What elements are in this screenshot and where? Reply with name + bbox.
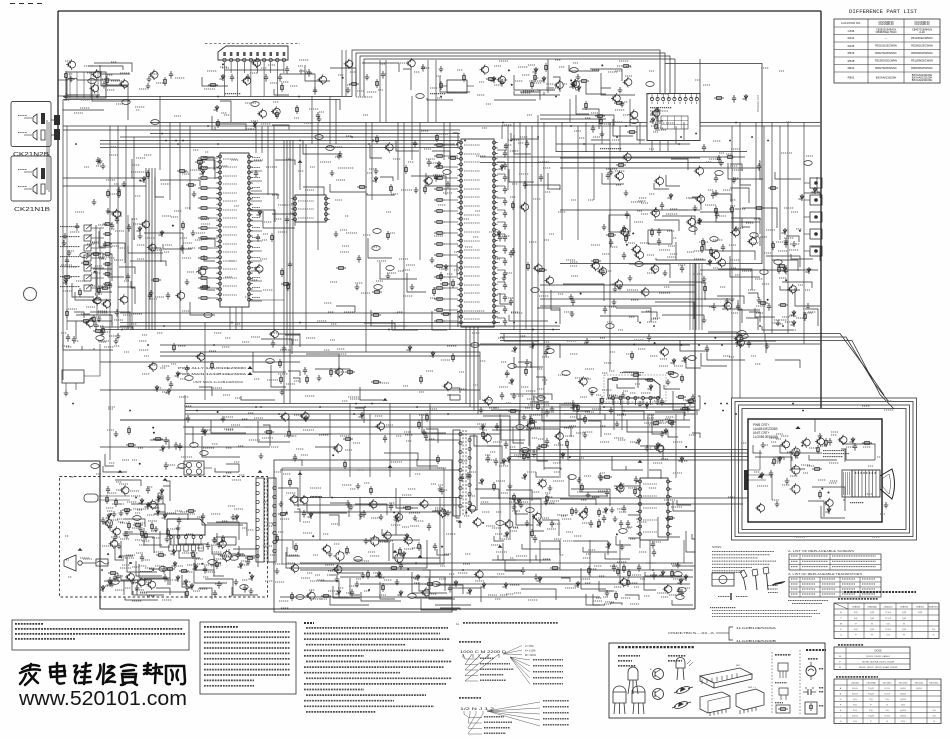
capacitor C477 — [217, 581, 221, 589]
line filter L602 — [184, 461, 204, 475]
wire — [329, 503, 460, 560]
resistor R506 — [610, 378, 620, 381]
variable resistor VR58 — [568, 475, 576, 480]
diode D244 — [403, 533, 408, 540]
svg-text:DIFFERENCE PART LIST: DIFFERENCE PART LIST — [849, 9, 917, 15]
wire audio bus — [352, 50, 660, 97]
diode D217 — [781, 266, 786, 273]
wire — [58, 95, 66, 97]
wire vertical bus from IC801 — [283, 140, 285, 345]
resistor R410 — [198, 227, 210, 230]
node L132 — [153, 432, 155, 434]
resistor R493 — [701, 244, 704, 253]
ground — [512, 504, 517, 510]
ground — [785, 478, 790, 484]
resistor R445 — [62, 276, 72, 279]
ground — [149, 290, 154, 296]
resistor R709 — [714, 97, 724, 100]
svg-text:R512R20JECWNN: R512R20JECWNN — [875, 59, 897, 63]
diode D289 — [478, 478, 483, 485]
node L137 — [785, 279, 787, 281]
diode D206 — [256, 210, 261, 217]
ground — [122, 181, 127, 187]
ground — [185, 584, 190, 590]
transistor Q135 — [382, 530, 391, 540]
variable resistor VR55 — [208, 560, 216, 565]
label text — [122, 417, 263, 465]
resistor R557 — [598, 519, 601, 528]
diode D281 — [219, 74, 224, 81]
wire — [497, 305, 505, 307]
capacitor C533 — [712, 303, 716, 311]
capacitor C517 — [126, 273, 130, 281]
ground — [534, 574, 539, 580]
wire — [748, 479, 766, 481]
svg-text:F,G: F,G — [853, 710, 857, 712]
transistor Q131 — [136, 577, 145, 587]
svg-text:E,F,G: E,F,G — [852, 716, 858, 718]
resistor R412 — [198, 247, 210, 250]
diode D228 — [99, 585, 104, 592]
ground — [386, 273, 391, 279]
svg-text:G,R,S: G,R,S — [900, 694, 906, 696]
ground — [676, 562, 681, 568]
svg-text:Q,R: Q,R — [902, 618, 906, 620]
wire — [510, 449, 748, 451]
resistor R614 — [581, 483, 584, 492]
wire — [210, 227, 218, 229]
resistor R457 — [390, 184, 393, 193]
svg-text:2SC458: 2SC458 — [851, 682, 859, 684]
node junctions — [72, 96, 804, 571]
resistor R512 — [153, 438, 163, 441]
capacitor C468 — [293, 454, 297, 462]
ground — [586, 492, 591, 498]
inductor L601 — [310, 496, 322, 498]
svg-text:E,F,G: E,F,G — [852, 688, 858, 690]
svg-text:O,Y,G: O,Y,G — [885, 612, 891, 614]
node L118 — [152, 427, 154, 429]
ground — [147, 76, 152, 82]
transistor Q713 — [695, 194, 705, 205]
wire — [748, 475, 772, 500]
variable resistor VR34 — [315, 135, 323, 140]
ground — [317, 116, 322, 122]
ground — [338, 151, 343, 157]
ground — [64, 390, 69, 396]
svg-text:P,Q,R: P,Q,R — [868, 716, 874, 718]
capacitor C480 — [177, 517, 181, 525]
resistor R517 — [288, 429, 291, 438]
label text — [481, 476, 682, 559]
resistor R424 — [434, 210, 445, 213]
wire — [497, 293, 505, 295]
wire — [98, 495, 130, 497]
label text — [338, 61, 531, 97]
pin 8 of U301 — [269, 58, 272, 61]
resistor R613 — [598, 508, 601, 517]
label text — [250, 160, 293, 280]
resistor R570 — [617, 567, 620, 576]
ground — [114, 338, 119, 344]
svg-text:M= ±20%: M= ±20% — [525, 653, 537, 657]
connector J102 — [54, 129, 60, 140]
speaker SP2 — [33, 130, 37, 140]
wire — [251, 250, 263, 252]
resistor R443 — [98, 286, 101, 295]
label text — [139, 333, 291, 398]
variable resistor VR ref — [178, 464, 186, 469]
pins of U602 regulator — [636, 480, 671, 536]
test point TP-62 — [144, 578, 146, 585]
variable resistor VR64 — [266, 359, 274, 364]
ground — [638, 401, 643, 407]
AC plug P501 — [64, 555, 76, 571]
variable resistor VR60 — [432, 582, 440, 587]
capacitor C499 — [545, 409, 549, 417]
wire — [51, 119, 58, 121]
ground — [818, 433, 823, 439]
transistor Q140 — [437, 508, 446, 518]
transistor Q187 — [289, 494, 298, 504]
resistor R593 — [591, 260, 601, 263]
wire B+ trunk — [185, 413, 695, 415]
resistor R470 — [486, 78, 496, 81]
wire — [184, 395, 186, 460]
transistor Q123 — [734, 333, 743, 343]
warning mark — [298, 472, 303, 475]
node L107 — [601, 64, 603, 66]
winding — [256, 491, 259, 494]
ground — [349, 504, 354, 510]
capacitor C530 — [186, 415, 190, 423]
winding — [468, 474, 471, 477]
variable resistor VR40 — [531, 288, 539, 293]
ground — [422, 429, 427, 435]
wire — [689, 263, 691, 330]
svg-text:1000 C M 2200 D: 1000 C M 2200 D — [460, 650, 507, 654]
capacitor C482 — [201, 513, 205, 521]
variable resistor VR ref — [646, 82, 654, 87]
node L104 — [508, 69, 510, 71]
capacitor C560 — [213, 590, 217, 598]
pin 5 of U601 — [200, 536, 203, 539]
ground — [438, 486, 443, 492]
winding — [468, 438, 471, 441]
svg-text:A. LIST OF REPLACEABLE SCREWS: A. LIST OF REPLACEABLE SCREWS — [788, 550, 855, 553]
ground — [522, 414, 527, 420]
transistor Q134 — [111, 526, 120, 536]
ground — [395, 579, 400, 585]
capacitor C408 — [503, 162, 507, 170]
capacitor C496 — [688, 398, 692, 406]
transistor Q181 — [251, 58, 260, 68]
label text — [107, 482, 160, 532]
variable resistor VR ref — [562, 371, 570, 376]
capacitor C467 — [424, 433, 428, 441]
ground — [176, 525, 181, 531]
capacitor C502 — [550, 520, 554, 528]
resistor R525 — [128, 521, 131, 530]
svg-text:O,Y,S: O,Y,S — [884, 716, 890, 718]
transistor Q184 — [472, 517, 481, 527]
capacitor C423 — [166, 292, 170, 300]
transistor Q115 — [533, 263, 542, 273]
resistor R543 — [566, 439, 569, 448]
capacitor C453 — [657, 238, 661, 246]
small package transistor — [778, 663, 788, 671]
wire — [58, 79, 68, 81]
transistor Q104 — [147, 242, 156, 252]
svg-text:J= ±5%: J= ±5% — [525, 644, 534, 648]
resistor R401 — [65, 71, 68, 80]
ground — [537, 444, 542, 450]
ground — [365, 74, 370, 80]
CRT neck funnel — [880, 469, 895, 499]
wire — [120, 419, 500, 421]
resistor R560 — [585, 506, 588, 515]
resistor R433 — [434, 309, 445, 312]
variable resistor VR37 — [373, 229, 381, 234]
node L117 — [139, 463, 141, 465]
node L122 — [201, 563, 203, 565]
degaussing posistor symbol — [805, 702, 817, 714]
warning mark — [418, 555, 423, 558]
resistor R539 — [425, 583, 435, 586]
switch S5 — [84, 265, 91, 271]
svg-text:R518: R518 — [848, 59, 855, 63]
ground — [761, 442, 766, 448]
capacitor C531 — [178, 443, 182, 451]
ground — [410, 284, 415, 290]
op-amp U602 regulator — [640, 478, 668, 540]
capacitor C500 — [486, 455, 490, 463]
wire — [251, 160, 295, 228]
variable resistor VR69 — [546, 349, 554, 354]
pins of U401 — [611, 396, 659, 405]
capacitor C437 — [504, 143, 508, 151]
wire — [497, 257, 505, 259]
resistor R480 — [93, 330, 103, 333]
diode D205 — [62, 278, 67, 285]
capacitor C550 — [505, 370, 509, 378]
transistor Q185 — [537, 478, 546, 488]
transistor package flat 1 — [613, 692, 626, 703]
ground — [702, 317, 707, 323]
svg-text:A. LIST OF REPLACEABLE TRANSIS: A. LIST OF REPLACEABLE TRANSISTORS — [788, 573, 863, 576]
capacitor C516 — [115, 216, 119, 224]
node L115 — [654, 342, 656, 344]
resistor R551 — [482, 430, 485, 439]
wire — [497, 221, 505, 223]
resistor R510 — [126, 444, 136, 447]
diode D203 — [158, 230, 163, 237]
svg-text:LOCATION NO.: LOCATION NO. — [841, 21, 861, 25]
capacitor C497 — [660, 398, 664, 406]
wire — [336, 238, 458, 330]
wire — [210, 247, 218, 249]
capacitor C455 — [625, 211, 629, 219]
wire — [250, 70, 252, 97]
wire — [275, 488, 300, 568]
wire — [120, 325, 560, 327]
capacitor C554 — [460, 474, 464, 482]
diode D269 — [682, 574, 687, 581]
svg-text:Q,R: Q,R — [902, 629, 906, 631]
transistor Q111 — [344, 59, 353, 69]
pins of U802 PST573 — [291, 197, 329, 221]
label text — [581, 562, 683, 604]
ground — [624, 190, 629, 196]
resistor R583 — [173, 343, 176, 352]
pin 4 of U301 — [243, 58, 246, 61]
amplifier sub-circuit box — [609, 215, 630, 232]
transistor Q159 — [92, 295, 101, 305]
wire — [445, 177, 458, 179]
svg-text:N43 + 1: N43 + 1 — [748, 687, 757, 689]
svg-text:P,Q,R: P,Q,R — [868, 688, 874, 690]
resistor R591 — [371, 381, 381, 384]
svg-text:R521001JECWNN: R521001JECWNN — [875, 44, 897, 48]
package identification box — [609, 643, 825, 718]
winding — [273, 549, 276, 552]
node L140 — [616, 533, 618, 535]
wire — [100, 608, 695, 610]
ground — [280, 389, 285, 395]
wire — [561, 568, 693, 605]
diode D267 — [536, 576, 541, 583]
table diodes — [838, 644, 864, 646]
ground — [123, 531, 128, 537]
capacitor C559 — [140, 554, 144, 562]
winding — [256, 500, 259, 503]
ground — [100, 330, 105, 336]
diode D241 — [171, 561, 176, 568]
svg-text:BXXAA0231100H: BXXAA0231100H — [876, 75, 897, 79]
CRT socket — [852, 470, 880, 497]
transistor Q161 — [111, 209, 120, 219]
capacitor C473 — [116, 573, 120, 581]
wire — [251, 280, 263, 282]
pin 5 of U301 — [249, 58, 252, 61]
resistor R458 — [424, 185, 427, 194]
warning mark — [393, 550, 398, 553]
wire — [814, 419, 816, 432]
resistor R558 — [602, 476, 612, 479]
watermark logo 家电维修资料网 — [20, 664, 40, 685]
svg-text:2SA1115: 2SA1115 — [884, 605, 893, 608]
node L116 — [576, 406, 578, 408]
diode D287 — [511, 346, 516, 353]
ground — [413, 515, 418, 521]
ground — [67, 250, 72, 256]
pin 1 of U601 — [170, 536, 173, 539]
resistor R502 — [676, 396, 686, 399]
transistor Q174 — [650, 264, 659, 274]
diode D277 — [649, 117, 654, 124]
ground — [439, 66, 444, 72]
variable resistor VR ref — [471, 343, 479, 348]
resistor R535 — [186, 510, 196, 513]
wire — [103, 425, 270, 472]
resistor R620 — [186, 589, 189, 598]
svg-text:CB38251E176GN: CB38251E176GN — [876, 30, 897, 34]
transistor package flat 2 — [632, 692, 645, 703]
diode D247 — [335, 589, 340, 596]
ground — [355, 581, 360, 587]
ground — [234, 579, 239, 585]
capacitor C523 — [103, 241, 107, 249]
ground — [765, 343, 770, 349]
ground — [69, 76, 74, 82]
wire — [63, 100, 340, 111]
node L124 — [368, 589, 370, 591]
svg-text:SPEAKER OUT: SPEAKER OUT — [757, 94, 760, 112]
capacitor C427 — [256, 234, 260, 242]
variable resistor VR36 — [372, 246, 380, 251]
wire — [276, 70, 278, 97]
wire B+ trunk — [185, 403, 695, 405]
resistor R454 — [376, 135, 379, 144]
resistor R623 — [418, 542, 421, 551]
wire — [251, 180, 263, 182]
resistor R601 — [531, 80, 534, 89]
ground — [550, 406, 555, 412]
ground — [192, 191, 197, 197]
wire — [320, 560, 556, 605]
resistor R526 — [151, 522, 154, 531]
ground — [221, 416, 226, 422]
variable resistor VR52 — [150, 504, 158, 509]
resistor R523 — [156, 554, 166, 557]
capacitor C418 — [503, 282, 507, 290]
svg-text:Q,R: Q,R — [902, 612, 906, 614]
resistor R446 — [91, 253, 101, 256]
resistor R622 — [108, 572, 118, 575]
resistor R518 — [418, 420, 421, 429]
transistor Q901 — [790, 446, 801, 458]
resistor R505 — [631, 374, 641, 377]
warning mark — [298, 160, 303, 163]
diode D276 — [706, 259, 711, 266]
label text — [107, 506, 254, 537]
capacitor C549 — [525, 359, 529, 367]
warning mark — [758, 475, 763, 478]
svg-text:www.520101.com: www.520101.com — [18, 688, 187, 710]
resistor R564 — [812, 468, 822, 471]
diode D298 — [659, 570, 664, 577]
resistor R580 — [103, 283, 112, 286]
capacitor C465 — [201, 427, 205, 435]
resistor R499 — [772, 241, 775, 250]
wire audio bus — [364, 59, 675, 97]
transistor Q186 — [289, 563, 298, 573]
svg-text:2SC945A: 2SC945A — [867, 681, 877, 684]
resistor R467 — [440, 283, 450, 286]
variable resistor VR67 — [804, 161, 812, 166]
label text — [546, 63, 632, 90]
label text — [485, 395, 696, 466]
small package resistor — [775, 702, 783, 704]
label text — [284, 409, 447, 470]
label text — [64, 461, 690, 604]
capacitor C487 — [433, 543, 437, 551]
ground — [618, 87, 623, 93]
transistor Q141 — [554, 431, 563, 441]
capacitor C457 — [714, 175, 718, 183]
node L113 — [714, 337, 716, 339]
diode D202 — [199, 169, 204, 176]
